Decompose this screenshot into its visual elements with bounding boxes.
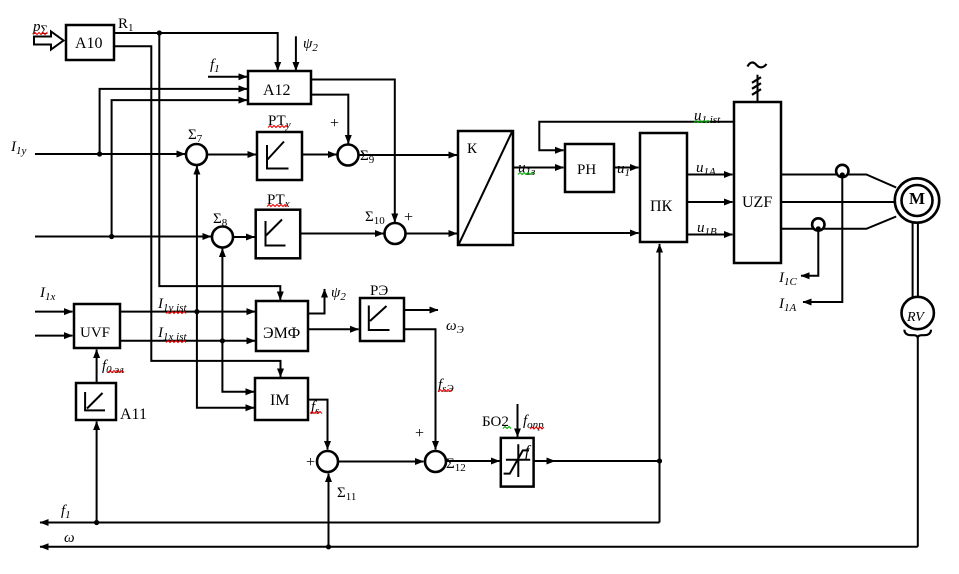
wire A12 output 2 down to Sigma9 top <box>311 95 348 144</box>
svg-text:ω: ω <box>64 530 75 546</box>
supply hatch marks <box>752 77 761 95</box>
red squiggle under fs-e <box>438 390 452 392</box>
svg-text:I1A: I1A <box>778 296 797 314</box>
block arrow p-sigma input <box>34 32 64 50</box>
wire UZF output phase C to motor <box>781 217 896 229</box>
wire f1 feedback line to left <box>40 522 660 524</box>
summer Sigma7 <box>186 144 207 165</box>
icon curve inside RE <box>369 306 390 331</box>
svg-text:А11: А11 <box>120 406 147 423</box>
block PK <box>640 133 687 242</box>
junction dot BO2 output node <box>657 458 662 463</box>
red squiggle under p-sigma <box>33 33 47 35</box>
wire Sigma10 to K <box>406 233 458 235</box>
svg-text:I1y: I1y <box>10 139 27 157</box>
red squiggle under fs <box>310 412 322 414</box>
wire UZF output phase A to motor <box>781 175 896 188</box>
svg-text:UVF: UVF <box>80 325 110 341</box>
red squiggle under f0.el <box>108 371 124 373</box>
wire PTy to Sigma9 <box>302 154 337 156</box>
green squiggle under BO2 <box>503 427 511 429</box>
motor shaft double line <box>913 221 918 297</box>
wire R1 branch down to EMF top <box>159 33 280 300</box>
green squiggle under u1.ist <box>694 121 710 123</box>
junction dot on R1 wire <box>157 30 162 35</box>
wire UZF supply line <box>757 75 759 102</box>
svg-text:u1.ist: u1.ist <box>694 108 721 126</box>
diagonal of K <box>459 132 512 244</box>
svg-text:ЭМФ: ЭМФ <box>263 325 300 342</box>
supply tilde symbol <box>748 63 767 68</box>
current sensor circle phase C <box>812 218 824 230</box>
wire K to RN u13 <box>513 167 564 169</box>
wire I1y.ist branch down to IM input 2 <box>197 312 254 408</box>
svg-text:u1: u1 <box>617 161 630 179</box>
wire A10 output 2 down to IM top <box>114 46 281 377</box>
wire UVF input 2 <box>35 335 73 337</box>
wire UZF output phase B to motor <box>781 201 896 203</box>
junction dot on omega line <box>326 544 331 549</box>
wire PTx to Sigma10 <box>301 233 384 235</box>
svg-text:А12: А12 <box>263 82 291 99</box>
svg-text:fsЭ: fsЭ <box>438 377 454 395</box>
wire branch I1y up to A12 input 2 <box>100 89 247 154</box>
svg-text:+: + <box>415 425 424 442</box>
wire f-opr stub into BO2 top <box>517 404 519 437</box>
summer Sigma12 <box>425 451 446 472</box>
wire branch I1x up to A12 input 3 <box>112 100 247 236</box>
wire omega branch up to Sigma11 bottom <box>328 474 330 547</box>
wire Sigma12 to BO2 <box>446 460 500 462</box>
wire PK to UZF line 3 <box>687 234 733 236</box>
svg-text:Σ8: Σ8 <box>213 211 228 229</box>
wire K to PK lower <box>513 232 639 234</box>
wire feedback up to PK bottom <box>659 244 661 461</box>
junction dot on f1 line <box>94 520 99 525</box>
wire f1 branch up to A11 bottom <box>96 422 98 523</box>
svg-text:f1: f1 <box>210 57 220 75</box>
svg-text:РЭ: РЭ <box>370 283 388 299</box>
wire A11 output f0.el to UVF bottom <box>96 350 98 384</box>
wire Sigma8 to PTx <box>233 236 255 238</box>
block IM <box>255 378 308 420</box>
wire omega feedback line to left <box>40 546 918 548</box>
svg-text:UZF: UZF <box>742 194 772 211</box>
svg-text:+: + <box>306 454 315 471</box>
svg-text:РТx: РТx <box>267 192 290 210</box>
wire u1.ist feedback from UZF to RN <box>539 122 734 151</box>
wire RE output omega.e <box>404 309 438 311</box>
svg-text:I1C: I1C <box>778 270 798 288</box>
svg-text:ωЭ: ωЭ <box>446 318 464 336</box>
red squiggle under PTx <box>267 205 287 207</box>
summer Sigma9 <box>338 145 359 166</box>
icon curve inside PTx <box>266 220 286 246</box>
svg-text:Σ11: Σ11 <box>337 485 356 503</box>
wire RV down to omega line <box>917 338 919 547</box>
junction dot on I1y line <box>97 151 102 156</box>
svg-text:+: + <box>404 209 413 226</box>
junction dot on I1x line <box>109 234 114 239</box>
svg-text:Σ9: Σ9 <box>360 148 375 166</box>
summer Sigma10 <box>385 223 406 244</box>
svg-text:РТy: РТy <box>268 113 291 131</box>
summer Sigma8 <box>212 227 233 248</box>
svg-text:Σ10: Σ10 <box>365 209 385 227</box>
wire UVF output I1y.ist to EMF <box>120 311 255 313</box>
icon curve inside PTy <box>267 142 289 169</box>
block BO2 <box>501 438 534 487</box>
svg-text:БО2: БО2 <box>482 414 509 430</box>
wire BO2 output to feedback node <box>534 460 660 462</box>
block UVF <box>74 304 120 348</box>
block RN <box>565 144 614 192</box>
svg-text:f1: f1 <box>61 503 71 521</box>
block PTy <box>257 132 302 180</box>
svg-text:М: М <box>909 189 925 208</box>
wire feedback node down to f1 line <box>659 461 661 523</box>
junction dot on I1y.ist wire <box>194 309 199 314</box>
current sensor circle phase A <box>836 165 848 177</box>
motor M outer circle <box>895 178 939 222</box>
wire current sensor I1A down and left <box>803 175 842 302</box>
wire PK to UZF line 2 <box>687 201 733 203</box>
svg-text:u1B: u1B <box>697 220 717 238</box>
junction dot on I1x.ist wire <box>220 338 225 343</box>
wire IM output fs to Sigma11 top <box>308 400 328 450</box>
block A10 <box>66 25 114 60</box>
motor M inner circle <box>902 185 933 216</box>
block A12 <box>248 71 311 104</box>
wire A10 output R1 to A12 top <box>114 33 278 71</box>
wire RN to PK u1 <box>614 167 639 169</box>
block UZF <box>734 102 781 263</box>
block RE <box>360 298 404 341</box>
wire Sigma9 to K <box>359 154 458 156</box>
svg-text:ψ2: ψ2 <box>303 36 318 54</box>
wire PK to UZF line 1 <box>687 174 733 176</box>
bracket under RV <box>904 330 931 338</box>
wire psi2 stub into A12 top <box>295 36 297 70</box>
green squiggle under u13 <box>518 173 534 175</box>
svg-text:Σ12: Σ12 <box>446 456 466 474</box>
svg-text:R1: R1 <box>118 16 134 34</box>
wire I1y.ist branch up to Sigma7 bottom <box>196 166 198 312</box>
svg-text:f0.эл: f0.эл <box>102 358 124 376</box>
wire UVF output I1x.ist to EMF <box>120 340 255 342</box>
svg-text:fs: fs <box>311 399 319 417</box>
block A11 <box>76 383 116 420</box>
wire A12 output 1 down to Sigma10 top <box>311 80 395 223</box>
block K converter <box>458 131 513 245</box>
svg-text:А10: А10 <box>75 35 103 52</box>
wire I1x input to Sigma8 <box>35 236 211 238</box>
wire EMF to RE <box>308 328 359 330</box>
current sensor dot phase C <box>816 226 821 231</box>
svg-text:ψ2: ψ2 <box>331 285 346 303</box>
wire I1y input to Sigma7 <box>35 153 185 155</box>
svg-text:I1x: I1x <box>39 285 56 303</box>
red squiggle under f-opr <box>530 427 544 429</box>
icon curve inside A11 <box>85 392 105 410</box>
wire UVF input 1 <box>35 311 73 313</box>
svg-text:РН: РН <box>577 162 596 178</box>
svg-text:RV: RV <box>906 310 925 325</box>
icon saturation inside BO2 <box>504 444 531 477</box>
block EMF <box>256 301 308 351</box>
wire I1x.ist branch down to IM input 1 <box>222 341 254 392</box>
red squiggle under I1x ist <box>166 341 186 343</box>
summer Sigma11 <box>317 451 338 472</box>
wire EMF output psi2 up arrow <box>308 289 325 314</box>
svg-text:u1A: u1A <box>696 160 716 178</box>
block PTx <box>256 210 301 259</box>
current sensor dot phase A <box>840 172 845 177</box>
wire current sensor I1C down and left <box>801 229 818 276</box>
svg-text:u1з: u1з <box>518 160 535 178</box>
wire RE output fse down to Sigma12 top <box>404 329 436 449</box>
svg-text:ПК: ПК <box>650 198 673 215</box>
wire I1x.ist branch up to Sigma8 bottom <box>221 249 223 341</box>
red squiggle under I1y ist <box>166 312 186 314</box>
wire Sigma11 to Sigma12 <box>338 461 424 463</box>
wire Sigma7 to PTy <box>207 154 256 156</box>
svg-text:+: + <box>330 115 339 132</box>
tachogenerator RV circle <box>902 297 934 329</box>
arrowhead on BO2 output <box>549 460 555 462</box>
svg-text:Σ7: Σ7 <box>188 127 203 145</box>
svg-text:IM: IM <box>270 392 290 409</box>
red squiggle under PTy <box>268 126 288 128</box>
wire f1 stub into A12 <box>208 76 247 78</box>
svg-text:К: К <box>467 141 478 157</box>
